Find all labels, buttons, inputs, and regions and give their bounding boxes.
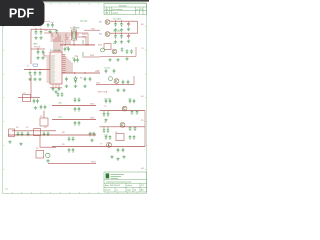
svg-text:C9 C10: C9 C10	[104, 98, 112, 100]
wire rail y163	[48, 162, 96, 164]
capacitor C55	[105, 135, 108, 140]
junction J9	[74, 72, 75, 73]
svg-text:Revision: Revision	[119, 5, 127, 7]
svg-text:MOTOR A: MOTOR A	[98, 90, 108, 93]
transistor T7	[107, 142, 112, 147]
revision table outer box	[104, 4, 147, 15]
wire lower left rail	[31, 48, 45, 50]
transistor T5	[122, 106, 127, 111]
wire drop rowC a	[103, 127, 105, 129]
ground G15	[65, 85, 68, 88]
ground G34	[46, 159, 49, 162]
wire row C rail	[100, 126, 146, 128]
scattered tiny labels	[26, 21, 132, 146]
junction J2	[40, 29, 41, 30]
wire crystal bottom	[77, 37, 86, 45]
capacitor C67	[72, 137, 75, 142]
green stub a	[82, 40, 84, 44]
ground G19	[114, 40, 117, 43]
transistor T3	[112, 49, 117, 54]
wire drop x44	[43, 111, 45, 118]
ground G9	[51, 87, 54, 90]
PDF badge	[0, 0, 45, 26]
junction J14	[121, 33, 122, 34]
wire rail y135	[8, 134, 96, 136]
capacitor C6	[34, 71, 37, 76]
page background	[0, 0, 149, 198]
wire mcu rail y88	[50, 87, 62, 89]
ground G5	[28, 78, 31, 81]
ground G2	[39, 36, 42, 39]
svg-text:Q1 16MHz: Q1 16MHz	[70, 27, 80, 29]
wire top vert x74	[73, 40, 75, 45]
capacitor C19	[65, 77, 68, 82]
junction J16	[85, 44, 86, 45]
capacitor C44	[133, 99, 136, 104]
transistor T1	[105, 20, 110, 25]
svg-text:sheet: sheet	[127, 184, 132, 187]
net stub y30	[84, 29, 100, 31]
capacitor C53	[89, 132, 92, 137]
capacitor C25	[78, 98, 81, 103]
capacitor C15	[64, 47, 67, 52]
capacitor C11	[44, 105, 47, 110]
capacitor C51	[103, 128, 106, 133]
wire rail y146 left part	[52, 146, 85, 148]
extra labels scatter	[16, 18, 121, 150]
capacitor C2	[40, 30, 43, 35]
capacitor C14	[55, 29, 58, 34]
capacitor C7	[39, 71, 42, 76]
svg-text:first release: first release	[112, 8, 123, 11]
capacitor C62	[21, 132, 24, 137]
revision table header divider	[104, 6, 147, 8]
ground G13	[74, 85, 77, 88]
MCU bottom stubs	[53, 84, 59, 87]
junction J5	[34, 69, 35, 70]
capacitor C24 pair above	[74, 98, 77, 103]
ground G26	[122, 89, 125, 92]
title block dividers	[104, 179, 147, 181]
title block logo	[106, 173, 110, 178]
junction J3	[37, 48, 38, 49]
capacitor C39	[122, 80, 125, 85]
capacitor C31	[120, 22, 123, 27]
wire drop rowB b	[107, 111, 109, 113]
capacitor C4	[42, 50, 45, 55]
capacitor C47	[103, 112, 106, 117]
ground G33	[19, 142, 22, 145]
svg-text:MISO: MISO	[82, 36, 88, 38]
svg-text:10u 100n: 10u 100n	[113, 30, 121, 32]
svg-text:GND: GND	[33, 43, 38, 45]
wire cap rail	[46, 28, 56, 30]
ground G20	[120, 40, 123, 43]
bus wire B6	[51, 37, 57, 52]
ground G18	[127, 28, 130, 31]
ground G6	[33, 78, 36, 81]
ground G4	[41, 56, 44, 59]
extra bus staircase lines	[44, 33, 86, 52]
capacitor C59	[117, 148, 120, 153]
ground G7	[38, 78, 41, 81]
crystal Q1 inner	[72, 32, 77, 34]
junction J11	[115, 21, 116, 22]
top browser strip	[0, 0, 149, 2]
wire drop rowC b	[107, 127, 109, 129]
svg-text:cs: cs	[116, 190, 118, 192]
ground G27	[104, 118, 107, 121]
right row drops	[104, 111, 108, 129]
net stub y57	[84, 56, 100, 58]
wire left vertical bus	[30, 29, 32, 64]
wire crystal right	[77, 33, 88, 45]
polarized cap CP2	[127, 34, 130, 39]
capacitor C3	[37, 50, 40, 55]
bus wire B8	[51, 41, 63, 52]
revision table row divider	[104, 10, 147, 12]
ground G21	[127, 40, 130, 43]
capacitor C48	[107, 112, 110, 117]
ground G1	[34, 36, 37, 39]
svg-text:RXD: RXD	[90, 55, 95, 57]
wire row D rail	[85, 146, 145, 148]
crystal Q1 box	[72, 30, 77, 40]
wire row BC link	[144, 111, 146, 127]
component box S1	[36, 150, 44, 158]
ferrite label blue	[33, 64, 38, 66]
relay box K1	[116, 134, 124, 141]
wire y45 long	[60, 44, 95, 46]
wire crystal top	[73, 26, 75, 30]
ground G14	[83, 85, 86, 88]
svg-text:VCC: VCC	[95, 71, 100, 73]
svg-text:out: out	[113, 42, 116, 45]
revision table text	[105, 5, 144, 14]
ground G8	[34, 106, 37, 109]
component R10 box	[34, 129, 41, 136]
capacitor C46	[136, 110, 139, 115]
bus wire B3	[60, 34, 66, 46]
ground G17	[120, 28, 123, 31]
svg-text:PDF: PDF	[9, 7, 34, 21]
transistor T6	[120, 122, 125, 127]
capacitor C9	[36, 99, 39, 104]
MCU left pins	[47, 56, 51, 82]
title block text	[105, 180, 145, 191]
capacitor C58	[133, 135, 136, 140]
svg-text:C7 C8: C7 C8	[104, 67, 111, 69]
svg-text:ok: ok	[134, 190, 136, 192]
ground G11	[57, 87, 60, 90]
connector X2 box	[40, 118, 48, 126]
capacitor C34	[121, 47, 124, 52]
capacitor C5	[29, 71, 32, 76]
capacitor C61	[17, 132, 20, 137]
MCU right pins	[62, 55, 66, 73]
ground G31	[122, 155, 125, 158]
capacitor C41	[105, 99, 108, 104]
polarized cap CP1	[127, 22, 130, 27]
junction J13	[115, 33, 116, 34]
junction J1	[35, 29, 36, 30]
wire rail B y119.5	[52, 119, 96, 121]
capacitor C33	[120, 34, 123, 39]
capacitor C37	[105, 69, 108, 74]
capacitor C50	[134, 126, 137, 131]
transistor T4	[114, 79, 119, 84]
ground G3	[36, 56, 39, 59]
wire mid rail	[24, 69, 50, 71]
capacitor C32	[114, 34, 117, 39]
bus verticals right of IC	[64, 55, 72, 74]
svg-text:drawn: drawn	[105, 190, 110, 192]
wire ckt3 rail	[100, 55, 136, 57]
capacitor C40	[127, 80, 130, 85]
frame tick marks bottom	[12, 192, 137, 194]
capacitor C64	[43, 132, 46, 137]
wire row A rail	[96, 84, 134, 86]
wire left feed y37	[44, 33, 52, 37]
ground G12	[48, 30, 51, 33]
capacitor C21	[89, 77, 92, 82]
ground G29	[110, 155, 113, 158]
capacitor C13	[51, 23, 54, 28]
svg-text:10u 100n: 10u 100n	[113, 18, 121, 20]
capacitor C38	[113, 69, 116, 74]
frame tick marks top	[12, 3, 98, 5]
wire row A right up	[133, 76, 135, 85]
wire T1 collector rail	[110, 20, 138, 22]
bus wire B1	[51, 33, 59, 52]
wire rowCD link	[144, 127, 146, 147]
title block logo text lines	[111, 175, 124, 179]
bus wire B5	[70, 39, 95, 45]
crystal Q1 inner2	[72, 36, 77, 38]
bus wire B2	[51, 35, 61, 52]
wire drop rowB a	[103, 111, 105, 113]
junction J7	[64, 44, 65, 45]
capacitor C28	[57, 92, 60, 97]
capacitor C54	[93, 132, 96, 137]
wire rail A y105	[52, 104, 96, 106]
junction J4	[29, 69, 30, 70]
capacitor C42	[109, 99, 112, 104]
connector ring P1	[101, 48, 105, 52]
capacitor C36	[130, 49, 133, 54]
capacitor C1	[35, 30, 38, 35]
junction J12	[121, 21, 122, 22]
capacitor C57	[129, 135, 132, 140]
frame row letters right edge	[141, 24, 145, 170]
capacitor C22	[74, 107, 77, 112]
wire T2 collector rail	[110, 32, 138, 34]
capacitor C26	[74, 121, 77, 126]
green stub b	[82, 52, 84, 58]
wire X3 drop	[40, 136, 56, 148]
revision table column lines	[106, 7, 108, 14]
regulator U2 box	[23, 95, 31, 102]
junction J8	[87, 44, 88, 45]
ground G30	[116, 157, 119, 160]
wire behind badge	[44, 20, 50, 22]
capacitor C12	[47, 23, 50, 28]
svg-text:cs: cs	[136, 9, 138, 11]
regulator box U3	[104, 44, 111, 50]
wire row B rail	[100, 110, 146, 112]
MCU pin names smudge	[51, 56, 55, 82]
wire ckt3 right up	[135, 47, 137, 56]
junction J6	[39, 69, 40, 70]
capacitor C63	[27, 132, 30, 137]
svg-text:TXD: TXD	[91, 28, 96, 30]
diode D1	[74, 76, 77, 83]
wire main rail y73	[62, 72, 100, 74]
svg-text:update: update	[112, 12, 119, 15]
capacitor C49	[129, 126, 132, 131]
ground G16	[114, 28, 117, 31]
capacitor C20	[84, 77, 87, 82]
capacitor C60	[122, 148, 125, 153]
ground G24	[125, 57, 128, 60]
connector ring P3	[46, 153, 50, 157]
crystal inner green	[73, 31, 76, 38]
capacitor C8	[33, 99, 36, 104]
capacitor C27	[78, 121, 81, 126]
MCU IC1 body	[50, 52, 62, 84]
bus wire B7	[51, 39, 55, 52]
connector ring P2	[109, 77, 113, 81]
wire stub left IC	[44, 52, 47, 56]
wire reg rail	[18, 97, 40, 99]
capacitor C52	[107, 128, 110, 133]
svg-text:schematic main board rev A: schematic main board rev A	[106, 180, 131, 183]
ground G22	[108, 58, 111, 61]
capacitor C35	[126, 49, 129, 54]
title block outer box	[104, 172, 147, 192]
capacitor C65	[47, 132, 50, 137]
wire right vert link	[137, 21, 139, 33]
capacitor C68	[68, 148, 71, 153]
capacitor C29	[61, 92, 64, 97]
capacitor C45	[131, 110, 134, 115]
frame side ticks	[3, 26, 147, 169]
capacitor C16	[67, 47, 70, 52]
wire rail y131	[12, 130, 56, 132]
drawing frame	[3, 3, 147, 194]
wire VIN rail	[31, 28, 46, 30]
capacitor C17	[73, 58, 76, 63]
ground G23	[116, 58, 119, 61]
ground G28	[90, 139, 93, 142]
svg-text:date: 2013-04-11: date: 2013-04-11	[105, 184, 121, 187]
capacitor C10	[40, 105, 43, 110]
transistor T2	[105, 32, 110, 37]
capacitor C43	[129, 99, 132, 104]
wire left drop	[30, 75, 32, 98]
junction J10	[84, 72, 85, 73]
svg-text:R3 10k: R3 10k	[34, 47, 40, 49]
ground G10	[54, 90, 57, 93]
capacitor C23	[78, 107, 81, 112]
capacitor C69	[72, 148, 75, 153]
capacitor C30	[114, 22, 117, 27]
wire caps top	[75, 56, 78, 57]
bus wire B4	[67, 37, 69, 45]
junction J15	[73, 44, 74, 45]
capacitor C56	[109, 135, 112, 140]
svg-text:appr: appr	[127, 190, 131, 192]
connector X3 box	[9, 129, 15, 137]
capacitor C66	[68, 137, 71, 142]
svg-text:22p 22p: 22p 22p	[80, 21, 88, 23]
ground G32	[8, 140, 11, 143]
capacitor C18	[76, 58, 79, 63]
ground G25	[116, 89, 119, 92]
